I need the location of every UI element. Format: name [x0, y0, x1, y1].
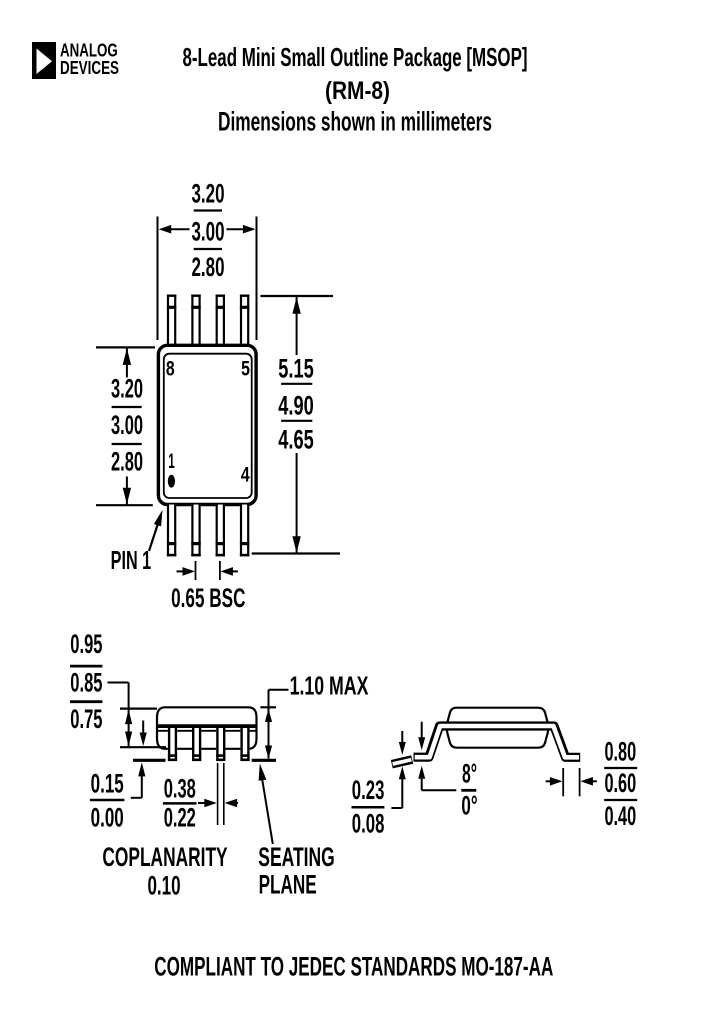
gull-wing lead (side view): [414, 726, 581, 757]
svg-text:0°: 0°: [461, 791, 477, 821]
lead pitch dimension 0.65 BSC: [171, 561, 245, 613]
lead thickness dimension 0.23/0.08 arrows at foot: [391, 731, 405, 808]
svg-text:0.22: 0.22: [164, 803, 196, 833]
left height dimension 3.20/3.00/2.80: [96, 347, 155, 505]
svg-text:5: 5: [241, 358, 250, 381]
svg-text:5.15: 5.15: [278, 354, 314, 384]
pin number 1: [168, 450, 175, 473]
pin number 5: [241, 358, 250, 381]
standoff dimension 0.15/0.00 lower arrow and leader: [131, 762, 146, 797]
svg-text:Dimensions shown in millimeter: Dimensions shown in millimeters: [218, 107, 492, 137]
pin 5 lead (top row, top view): [240, 295, 249, 347]
lead angle text 8/0 degrees: [461, 759, 477, 821]
pin number 8: [166, 358, 175, 381]
pin 3 lead (bottom row, top view): [216, 505, 225, 557]
body height dimension 0.95/0.85/0.75: [70, 629, 166, 747]
pin number 4: [241, 464, 250, 487]
svg-text:8°: 8°: [462, 759, 477, 789]
svg-text:PLANE: PLANE: [259, 870, 317, 900]
foot angle arrows: [418, 722, 456, 791]
PIN 1 label: [111, 545, 152, 575]
svg-text:COMPLIANT TO JEDEC STANDARDS M: COMPLIANT TO JEDEC STANDARDS MO-187-AA: [154, 952, 553, 982]
pin 6 lead (top row, top view): [216, 295, 225, 347]
svg-text:0.00: 0.00: [91, 802, 124, 832]
svg-text:2.80: 2.80: [192, 252, 225, 282]
overall height dimension 1.10 MAX: [260, 671, 368, 760]
top width dimension 3.20/3.00/2.80 text: [192, 179, 225, 282]
svg-text:8: 8: [166, 358, 175, 381]
svg-text:DEVICES: DEVICES: [60, 58, 119, 78]
seating plane line (left): [133, 759, 166, 762]
standoff dimension text 0.15/0.00: [90, 768, 125, 832]
lead 1 (front view): [168, 728, 177, 761]
lead foot at 8 degree tilt (detail): [392, 760, 412, 765]
svg-text:1.10 MAX: 1.10 MAX: [290, 671, 369, 701]
svg-text:8-Lead Mini Small Outline Pack: 8-Lead Mini Small Outline Package [MSOP]: [183, 42, 528, 72]
svg-text:2.80: 2.80: [111, 447, 143, 477]
svg-text:0.95: 0.95: [70, 629, 102, 659]
svg-text:0.85: 0.85: [70, 668, 102, 698]
svg-text:3.20: 3.20: [111, 374, 143, 404]
title line 1: [183, 42, 528, 72]
lead width dimension 0.38/0.22: [163, 774, 238, 833]
svg-text:0.10: 0.10: [147, 871, 180, 901]
title line 3: [218, 107, 492, 137]
COPLANARITY 0.10 label: [102, 842, 227, 901]
package body (side view): [447, 708, 548, 748]
svg-text:3.20: 3.20: [192, 179, 225, 209]
package body outline (top view): [158, 345, 256, 504]
standoff dimension 0.15/0.00 upper arrow: [140, 721, 147, 747]
lead thickness text 0.23/0.08: [352, 775, 385, 839]
svg-text:0.40: 0.40: [604, 801, 636, 831]
lead 3 (front view): [216, 728, 225, 761]
pin 2 lead (bottom row, top view): [191, 505, 200, 557]
package body (front view): [157, 707, 257, 749]
svg-text:0.65 BSC: 0.65 BSC: [171, 583, 245, 613]
svg-text:0.75: 0.75: [70, 704, 102, 734]
lead 4 (front view): [240, 728, 249, 761]
pin 8 lead (top row, top view): [167, 295, 176, 347]
svg-text:0.23: 0.23: [352, 775, 385, 805]
svg-text:0.15: 0.15: [91, 768, 124, 798]
SEATING PLANE label: [258, 842, 334, 900]
svg-text:0.60: 0.60: [604, 768, 636, 798]
svg-text:4: 4: [241, 464, 250, 487]
pin 1 indicator dot: [168, 475, 175, 488]
lead 2 (front view): [192, 728, 201, 761]
right height dimension 5.15/4.90/4.65: [252, 296, 340, 554]
svg-text:0.08: 0.08: [352, 809, 385, 839]
svg-text:1: 1: [168, 450, 175, 473]
Analog Devices logo mark: [32, 42, 56, 79]
pin 1 lead (bottom row, top view): [167, 505, 176, 557]
foot length dimension 0.80/0.60/0.40: [546, 736, 638, 831]
logo wordmark ANALOG DEVICES: [60, 40, 119, 78]
svg-text:0.80: 0.80: [604, 736, 636, 766]
svg-text:4.65: 4.65: [278, 425, 314, 455]
JEDEC compliance note: [154, 952, 553, 982]
seating plane line (right): [252, 759, 276, 762]
lead width projection lines (0.38/0.22): [218, 763, 224, 825]
svg-text:PIN 1: PIN 1: [111, 545, 152, 575]
svg-text:3.00: 3.00: [192, 216, 225, 246]
top width dimension line with arrows: [158, 217, 257, 341]
svg-text:3.00: 3.00: [111, 410, 143, 440]
svg-text:(RM-8): (RM-8): [325, 77, 390, 105]
pin 4 lead (bottom row, top view): [240, 505, 249, 557]
svg-text:SEATING: SEATING: [258, 842, 334, 872]
svg-text:COPLANARITY: COPLANARITY: [102, 842, 227, 872]
svg-text:0.38: 0.38: [164, 774, 196, 804]
SEATING PLANE leader arrow: [259, 764, 273, 845]
pin 7 lead (top row, top view): [191, 295, 200, 347]
title line 2 (RM-8): [325, 77, 390, 105]
PIN 1 leader arrow: [149, 510, 163, 551]
svg-text:4.90: 4.90: [278, 391, 314, 421]
